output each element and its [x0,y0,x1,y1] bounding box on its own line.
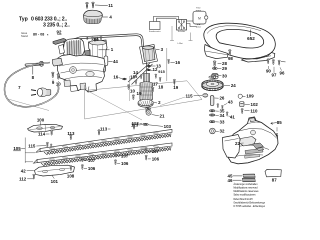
svg-text:97: 97 [272,72,277,77]
svg-text:24: 24 [231,83,236,88]
screw 113a [70,135,73,140]
screw 11b [92,2,95,8]
housing foot tabs [64,80,86,90]
svg-text:107: 107 [152,149,160,154]
svg-text:44: 44 [113,59,118,64]
svg-text:115: 115 [185,94,193,99]
part 87 plate [265,169,281,177]
part 8 hinge pin [25,61,44,67]
screw 110 [241,109,243,114]
svg-text:11: 11 [108,3,113,8]
svg-text:113: 113 [100,126,108,131]
svg-text:86: 86 [94,37,99,42]
svg-text:113: 113 [132,121,140,126]
wires capacitor to brushes [128,63,150,82]
part 1 stator [89,40,108,75]
svg-text:Modifications réservées: Modifications réservées [234,189,260,193]
schematic: switch [177,20,187,31]
screw 107 c [145,148,147,153]
svg-text:19: 19 [173,85,178,90]
svg-text:Robert Bosch GmbH: Robert Bosch GmbH [234,197,253,201]
svg-text:22: 22 [235,141,240,146]
blade lower rail [37,143,172,163]
schematic wire condenser-switch [154,16,179,21]
screw 114 [50,130,53,135]
svg-text:18: 18 [158,84,163,89]
blade upper rail [40,129,172,151]
screw 11a [86,2,89,8]
svg-text:3 235 0..; 2..: 3 235 0..; 2.. [43,22,70,28]
assembly leader lines [8,99,49,111]
bearing stack 21 [146,108,151,110]
svg-text:108: 108 [67,173,75,178]
part 101 guide plate [35,165,75,176]
svg-text:42: 42 [21,169,26,174]
svg-text:41: 41 [230,115,235,120]
svg-text:Anker: Anker [196,26,202,29]
svg-text:12: 12 [153,67,158,72]
washer 13 part [147,65,151,67]
svg-text:114: 114 [38,132,46,137]
part 4 knob [84,10,103,23]
svg-text:115: 115 [28,144,36,149]
svg-text:26: 26 [219,96,224,101]
screw 113c2 [133,124,136,129]
fan [138,100,153,107]
part 6 motor cover [63,38,85,57]
svg-text:33: 33 [220,119,225,124]
svg-text:30: 30 [222,73,227,78]
svg-text:M: M [198,16,201,20]
svg-text:100: 100 [37,117,45,122]
part 100 link plate [28,124,63,132]
svg-text:80 - 08: 80 - 08 [33,32,44,36]
panel outline [85,81,202,119]
gear 24 [202,80,224,91]
svg-text:D 70745 Leinfelden - Echterdin: D 70745 Leinfelden - Echterdingen [234,204,266,208]
housing left foot plate [223,135,241,159]
svg-text:15: 15 [160,70,164,74]
svg-text:112: 112 [19,177,27,182]
washer 33 [210,121,215,123]
screw 96 [278,60,280,65]
leader line vertical x167 [166,48,168,81]
screw 106 b [114,160,116,165]
schematic: motor [193,11,206,24]
switch lever [85,50,92,57]
svg-text:43: 43 [228,100,233,105]
screw 108 [70,166,72,171]
svg-text:Modifications reserved: Modifications reserved [234,186,259,190]
svg-text:98: 98 [228,56,233,61]
svg-text:29: 29 [222,66,227,71]
screw 41 [226,112,228,116]
handle left foot [205,45,229,59]
svg-text:105: 105 [13,146,21,151]
housing left bracket / cord anchor [52,58,62,66]
washers 28 29 30 [213,61,216,67]
screw 112 [33,174,35,179]
washer 113/103 [143,123,148,125]
stator studs [91,37,93,41]
blade upper teeth [44,133,171,154]
part 5 rear housing [227,117,279,164]
plug [31,88,51,97]
svg-text:Salvo modificaciones: Salvo modificaciones [234,193,257,197]
part 7 power cord [4,63,58,107]
handle right foot [242,53,275,63]
screw 90 [267,59,269,64]
washer 34 [210,114,215,116]
svg-text:9: 9 [135,75,137,79]
svg-text:L-Mot: L-Mot [177,42,183,45]
washer above gear [209,76,216,79]
wire harness to capacitor [63,34,144,47]
svg-text:19: 19 [137,91,142,96]
svg-text:92: 92 [57,29,62,34]
part 44 spring plate [104,56,108,66]
part 652 bow handle [204,23,276,59]
schematic wires switch-motor [187,21,197,27]
part 86 brush [94,37,98,41]
screws 43 [217,104,219,108]
part 109 [238,94,242,98]
svg-text:109: 109 [246,94,254,99]
svg-text:Stand: Stand [21,34,28,38]
svg-text:96: 96 [280,70,285,75]
svg-text:107: 107 [121,153,129,158]
svg-text:110: 110 [250,108,258,113]
svg-text:32: 32 [220,128,225,133]
shaft 26 [210,96,214,106]
small bracket left of cover [59,45,65,55]
svg-text:106: 106 [121,161,129,166]
svg-text:21: 21 [160,113,165,118]
schematic bracket [170,26,174,41]
svg-text:10: 10 [130,89,135,94]
svg-text:103: 103 [164,124,172,129]
svg-text:107: 107 [88,158,96,163]
pinion 115 [203,93,208,97]
screw 10 [57,74,60,80]
svg-text:85: 85 [277,120,282,125]
schematic: condenser box [150,22,161,30]
svg-text:106: 106 [88,166,96,171]
screw 9 [51,72,54,78]
part 92 clamp bar [53,38,66,44]
svg-text:46: 46 [228,178,233,183]
brush area small parts [140,75,142,79]
screw 107 b [114,152,116,157]
svg-text:Typ: Typ [19,16,28,22]
screw 98 [228,50,231,56]
svg-text:87: 87 [272,177,277,182]
svg-text:102: 102 [251,102,259,107]
svg-text:Änderungen vorbehalten: Änderungen vorbehalten [234,182,258,186]
svg-text:113: 113 [67,131,75,136]
svg-text:16: 16 [175,60,180,65]
washer 35 [210,110,215,112]
ring 12 part [147,69,150,71]
armature 2 [140,62,153,112]
screw 106 c [145,155,147,160]
screw 97 [272,60,274,65]
svg-text:16: 16 [113,75,118,80]
svg-text:Schalter: Schalter [178,30,186,33]
trigger parts [240,137,257,147]
svg-text:652: 652 [247,36,255,41]
screw 16r [167,59,169,64]
ring 32 [210,128,216,134]
svg-text:34: 34 [220,113,225,118]
part 3 capacitor [140,45,158,65]
screw 107 a [81,157,83,162]
screw 106 a [81,165,83,170]
gear housing lower [58,55,106,93]
svg-text:101: 101 [51,179,59,184]
part 102 bushing [240,102,244,107]
svg-text:Feld: Feld [196,8,200,10]
blade slots [49,148,54,150]
svg-text:106: 106 [152,156,160,161]
blade lower teeth [41,147,171,166]
svg-text:Kondensator: Kondensator [149,30,161,33]
screw 113b [98,130,101,135]
svg-text:3: 3 [86,37,88,41]
svg-text:Geschäftsbereich Elektrowerkze: Geschäftsbereich Elektrowerkzeuge [234,200,266,204]
